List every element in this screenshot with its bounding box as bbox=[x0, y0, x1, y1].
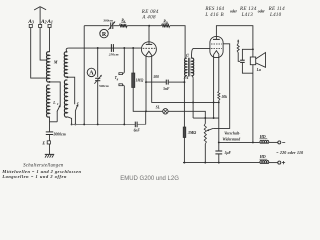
svg-text:300cm: 300cm bbox=[102, 18, 113, 22]
svg-text:Langwellen = 1 und 2 offen: Langwellen = 1 und 2 offen bbox=[1, 174, 67, 179]
wire heater return bbox=[193, 117, 219, 119]
node: tube V1 anode junction bbox=[148, 25, 150, 27]
wire secondary bottom bbox=[192, 75, 194, 78]
svg-text:Mittelwellen = 1 und 2 gesch: Mittelwellen = 1 und 2 geschlossen bbox=[1, 169, 81, 174]
svg-text:A 408: A 408 bbox=[141, 15, 156, 20]
wire A1 to coil top bbox=[49, 28, 51, 53]
coil L' (secondary, long wave) bbox=[64, 80, 67, 117]
node: secondary coil junction bbox=[66, 76, 68, 78]
control R (Rueckkopplung) circled label bbox=[100, 29, 108, 37]
phono terminals Tg bbox=[123, 47, 125, 49]
svg-text:A3: A3 bbox=[27, 19, 34, 25]
wire chassis bus bbox=[72, 123, 135, 125]
wire V1 filament right leg bbox=[152, 55, 219, 102]
tube V2 anode bbox=[213, 38, 220, 40]
loudspeaker La bbox=[250, 57, 255, 65]
svg-text:500: 500 bbox=[154, 75, 160, 79]
node: 5nF to primary line bbox=[183, 81, 185, 83]
wire tuning line bbox=[97, 48, 99, 77]
tube V1 anode bbox=[146, 43, 152, 45]
svg-text:6nF: 6nF bbox=[134, 129, 141, 133]
terminal minus bbox=[278, 141, 281, 144]
svg-text:E: E bbox=[41, 141, 45, 146]
wire V1 filament left leg bbox=[145, 55, 147, 111]
wire coil L' bottom to chassis bus bbox=[67, 117, 71, 125]
svg-text:HD: HD bbox=[259, 154, 266, 159]
svg-text:500cm: 500cm bbox=[99, 84, 109, 88]
svg-text:M: M bbox=[53, 60, 58, 65]
node: secondary to heater line bbox=[192, 101, 194, 103]
variable resistor (tone) bbox=[238, 53, 240, 62]
svg-text:RES 164: RES 164 bbox=[204, 7, 224, 12]
tube V2 filament bbox=[214, 51, 220, 55]
svg-text:A1: A1 bbox=[46, 19, 53, 25]
coil L (antenna, long wave) bbox=[47, 85, 50, 117]
svg-text:A: A bbox=[89, 71, 94, 77]
wire lamp line bbox=[146, 110, 163, 112]
wire bus riser to filament node bbox=[145, 111, 147, 124]
resistor 50k bbox=[218, 91, 220, 100]
svg-text:Schalterstellungen: Schalterstellungen bbox=[23, 164, 64, 169]
wire V2 filament left leg bbox=[213, 55, 215, 118]
node: reaction line to bus bbox=[83, 123, 85, 125]
svg-text:5μF: 5μF bbox=[225, 151, 232, 155]
coil M' (secondary, medium wave) bbox=[64, 52, 67, 77]
wire primary bottom bbox=[184, 75, 186, 78]
wire switch 1 lower to coil line bbox=[50, 121, 58, 123]
svg-text:L413: L413 bbox=[241, 13, 254, 18]
node: heater junction bbox=[218, 100, 220, 102]
wire Tg line to bus bbox=[123, 86, 125, 125]
wire cap to terminal E bbox=[49, 135, 51, 141]
switch 1 (shorts coil L) bbox=[56, 111, 58, 122]
node: tuning line to grid rail bbox=[97, 47, 99, 49]
svg-text:A2: A2 bbox=[40, 19, 47, 25]
wire plus rail bbox=[183, 162, 260, 164]
capacitor (tone, across speaker) bbox=[242, 49, 253, 60]
svg-text:RE 114: RE 114 bbox=[268, 7, 285, 12]
wire anode node to RD bbox=[149, 25, 161, 27]
ground bbox=[45, 153, 54, 155]
svg-text:EMUD G200 und L2G: EMUD G200 und L2G bbox=[120, 176, 179, 182]
svg-text:oder: oder bbox=[258, 9, 265, 13]
capacitor 3000cm bbox=[46, 131, 53, 133]
node: tuning line to bus bbox=[97, 123, 99, 125]
coil M (antenna, medium wave) bbox=[47, 52, 50, 82]
svg-text:SL: SL bbox=[156, 105, 161, 109]
tube V1 filament bbox=[146, 51, 152, 55]
node: bus left junctions bbox=[71, 123, 73, 125]
capacitor 5uF (supply bypass) bbox=[218, 142, 220, 151]
wire V2 filament right leg bbox=[218, 55, 220, 91]
wire E to ground bbox=[49, 144, 51, 154]
wire lamp to potentiometer bbox=[168, 111, 205, 123]
tube V2 grids (dashed) bbox=[211, 43, 222, 45]
svg-text:5nF: 5nF bbox=[163, 87, 170, 91]
svg-text:1MΩ: 1MΩ bbox=[136, 78, 144, 82]
grid rail wire bbox=[69, 47, 142, 49]
wire junction to switch 1 bbox=[50, 82, 61, 105]
node: 5nF tap bbox=[145, 81, 147, 83]
wire V2 anode to speaker line bbox=[216, 26, 253, 57]
resistor 3MOhm bbox=[183, 127, 186, 138]
wire 3MOhm to plus rail bbox=[183, 138, 185, 163]
wire A2 to coil tap bbox=[40, 28, 47, 61]
wire heater drop to supply bbox=[218, 102, 220, 142]
svg-text:R: R bbox=[102, 32, 107, 38]
svg-text:La: La bbox=[256, 68, 261, 72]
antenna symbol bbox=[39, 7, 41, 25]
resistor 1MOhm (grid leak) bbox=[132, 47, 134, 49]
wire potentiometer to plus rail bbox=[204, 144, 206, 163]
wire V2 screen grid lead bbox=[213, 44, 230, 129]
wire junction to switch 2 bbox=[67, 77, 74, 104]
node: M bottom / L top junction bbox=[49, 81, 51, 83]
wire RD to transformer primary bbox=[170, 26, 185, 59]
capacitor 5nF bbox=[146, 81, 166, 83]
terminal plus bbox=[278, 161, 281, 164]
switch 2 (shorts coil L') bbox=[74, 111, 76, 125]
svg-text:Vorschalt-: Vorschalt- bbox=[224, 132, 241, 136]
svg-text:50k: 50k bbox=[222, 95, 228, 99]
svg-text:L410: L410 bbox=[269, 13, 282, 18]
wire 1MOhm to filament line bbox=[133, 88, 146, 112]
wire secondary top to V2 grid bbox=[192, 48, 195, 58]
tube V2 (RES 164 output) bbox=[210, 36, 223, 57]
svg-text:oder: oder bbox=[230, 9, 237, 13]
capacitor 250cm (grid) bbox=[110, 44, 112, 52]
capacitor 6nF (series in bus) bbox=[134, 122, 136, 128]
svg-text:RE 084: RE 084 bbox=[141, 10, 159, 15]
node: tone branch tap bbox=[252, 48, 254, 50]
wire reaction line (vertical) bbox=[83, 26, 85, 125]
wire speaker line down bbox=[252, 65, 254, 143]
svg-text:L 416 B: L 416 B bbox=[204, 13, 224, 18]
svg-text:RE 134: RE 134 bbox=[239, 7, 257, 12]
svg-text:250cm: 250cm bbox=[108, 52, 119, 56]
wire coil top to grid rail (hook) bbox=[66, 48, 68, 52]
potentiometer (Vorschaltwiderstand) bbox=[204, 124, 206, 144]
svg-text:3MΩ: 3MΩ bbox=[187, 131, 196, 135]
wire top reaction rail bbox=[84, 25, 109, 27]
svg-text:3000cm: 3000cm bbox=[53, 133, 66, 137]
variable capacitor 500cm (tuning) bbox=[95, 77, 100, 79]
node: filament/lamp/bus junction bbox=[145, 110, 147, 112]
wire V1 anode to rail bbox=[148, 26, 150, 42]
svg-text:HD: HD bbox=[259, 134, 266, 139]
tube V1 grid (dashed) bbox=[143, 47, 156, 49]
svg-text:Widerstand: Widerstand bbox=[222, 138, 240, 142]
wire A3 to coil tap bbox=[31, 28, 48, 79]
svg-text:= 220 oder 110: = 220 oder 110 bbox=[276, 150, 303, 155]
node: Tg line to bus bbox=[123, 123, 125, 125]
control A (Abstimmung) circled label bbox=[87, 68, 95, 76]
svg-text:1: 1 bbox=[57, 102, 59, 106]
wire Rg to anode node bbox=[127, 25, 149, 27]
tube V1 (RE 084 detector) bbox=[141, 42, 156, 57]
wire minus rail bbox=[219, 141, 260, 143]
